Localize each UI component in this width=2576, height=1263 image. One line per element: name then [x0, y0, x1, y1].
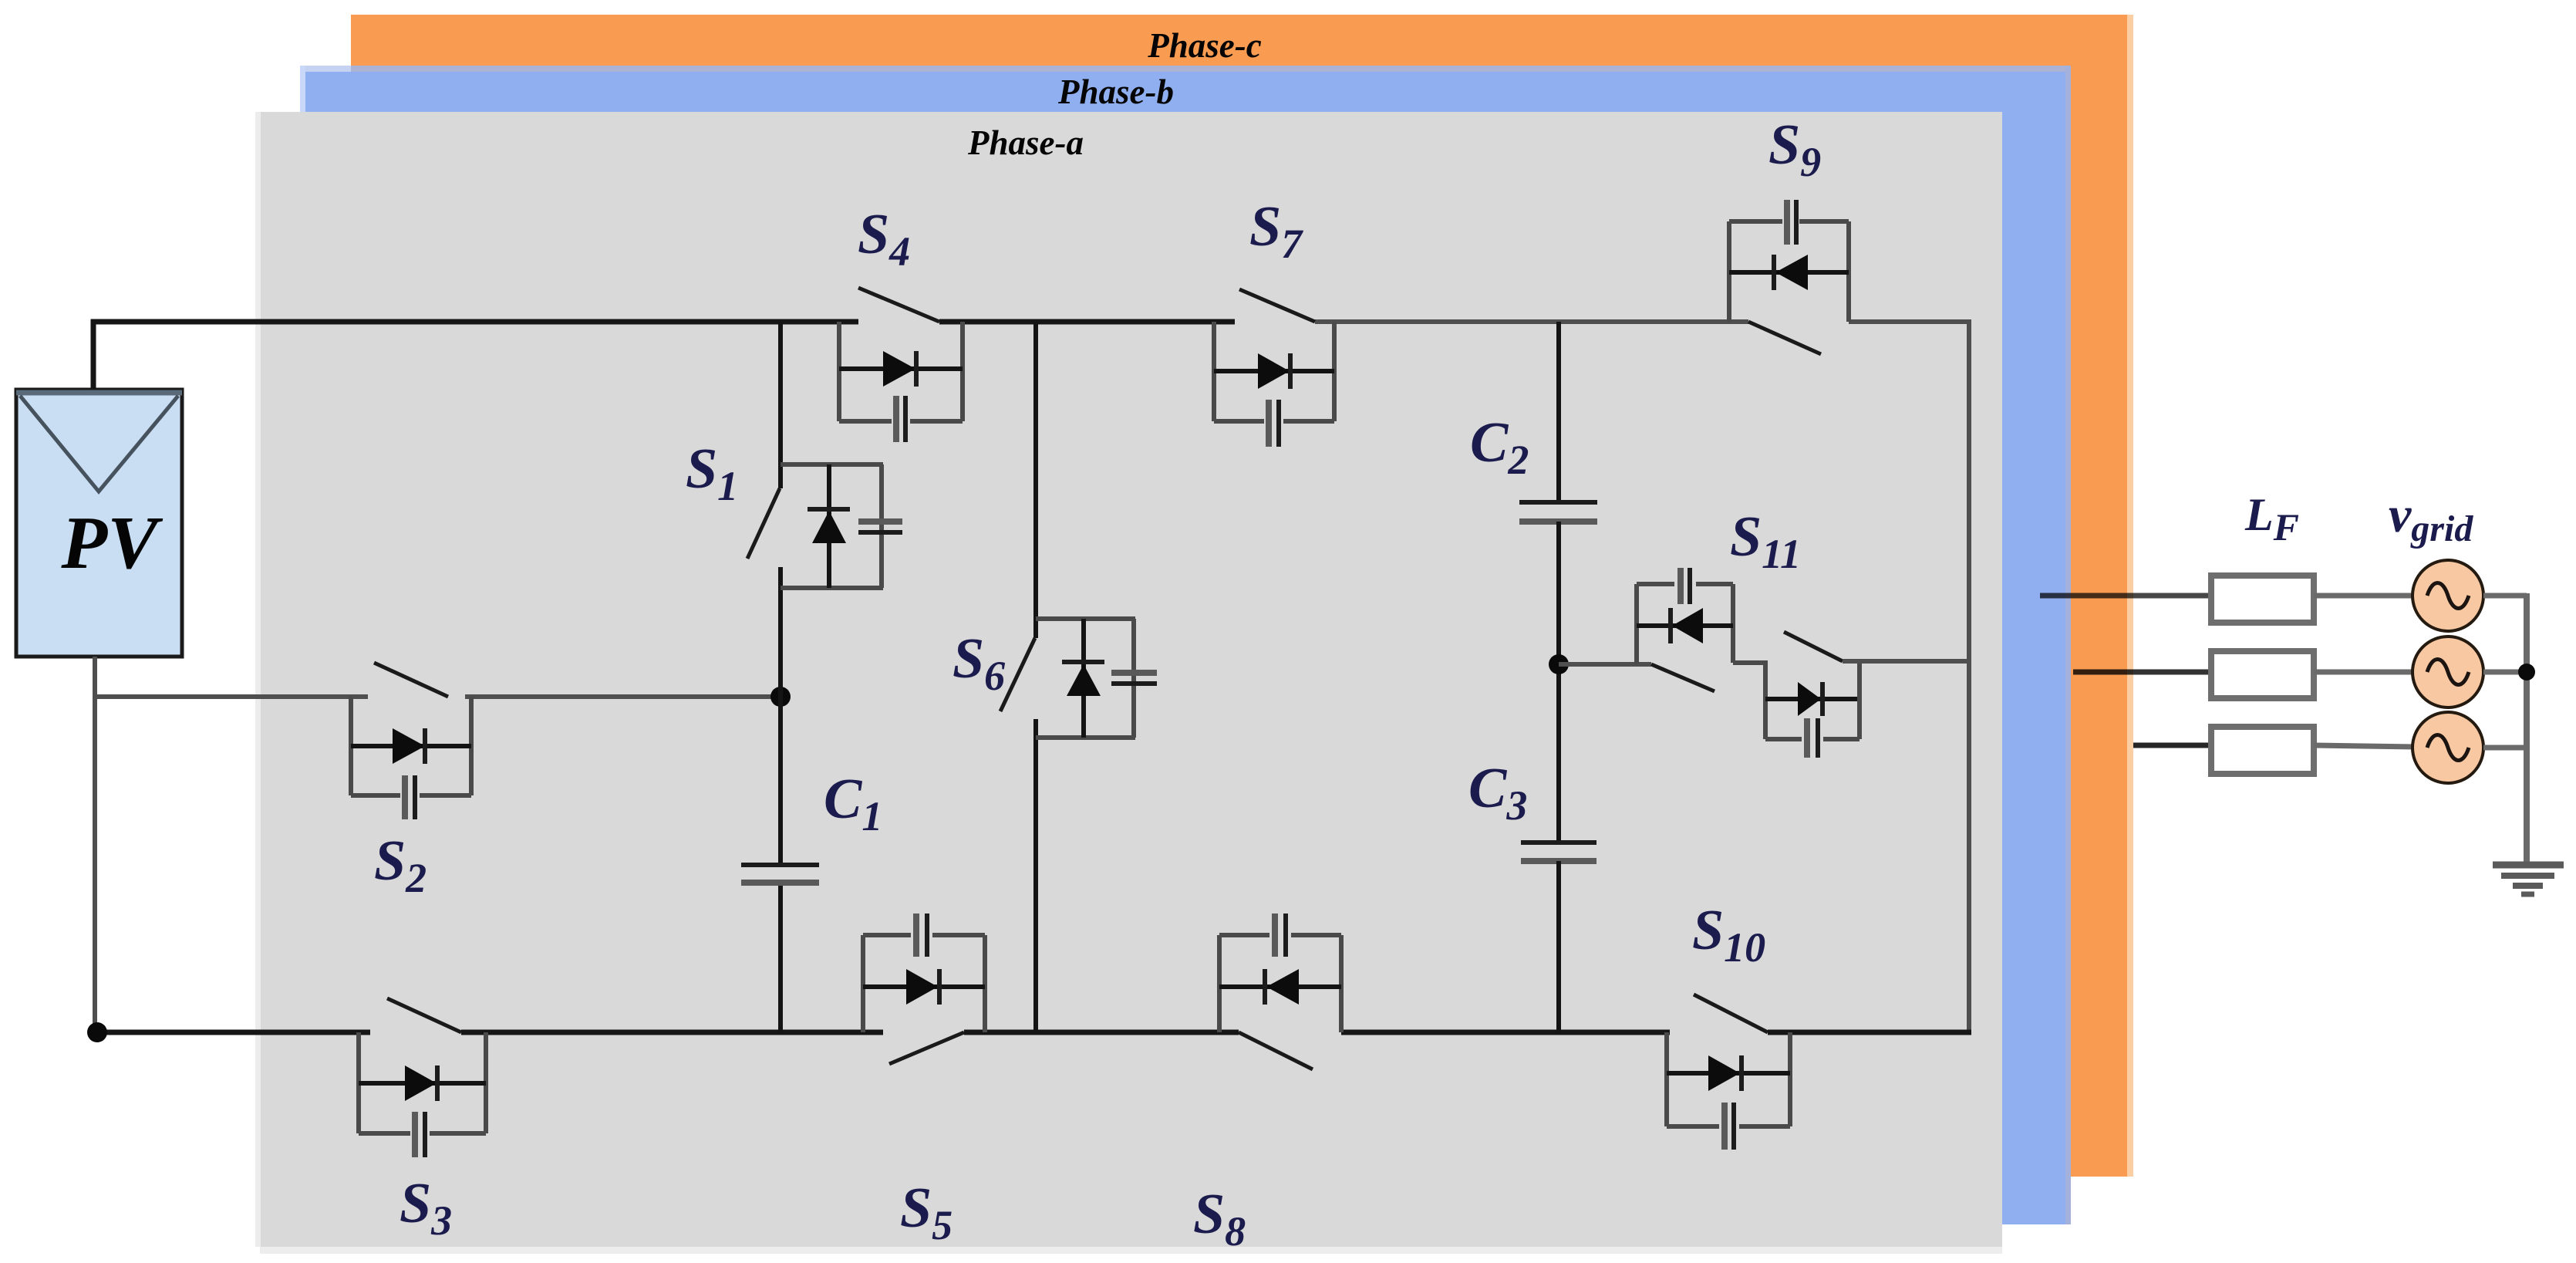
switch S9 snubber box: [1727, 221, 1731, 322]
switch S6 (vertical, mid leg): [1000, 322, 1157, 1032]
switch S2 body diode: [351, 744, 471, 748]
wire top rail: S7 to S9: [1315, 319, 1748, 324]
switch S7 snubber box: [1212, 322, 1216, 421]
ground: [2493, 865, 2564, 894]
wire phase-a output row: [2040, 593, 2211, 599]
switch S3 snubber capacitor: [412, 1112, 418, 1157]
switch S10 snubber box: [1664, 1032, 1669, 1126]
svg-text:PV: PV: [60, 501, 164, 585]
node bottom-left junction dot: [87, 1022, 107, 1042]
switch S2 snubber box: [349, 697, 353, 795]
wire bottom rail: S10 to right corner: [1768, 1030, 1971, 1035]
wire right vertical rail: [1967, 319, 1971, 1032]
phase-b sheet (blue): [300, 66, 2071, 1224]
S11 right blade: [1784, 632, 1843, 661]
wire bottom rail: node to S3: [97, 1030, 370, 1035]
switch S10 blade: [1694, 995, 1768, 1032]
switch S5 snubber box: [861, 935, 865, 1032]
S11 right snubber box: [1765, 737, 1802, 741]
wire vgrid3 to neutral rail: [2483, 745, 2527, 751]
switch S5: [863, 913, 985, 1064]
node neutral junction dot: [2518, 664, 2535, 680]
switch S2: [351, 663, 471, 819]
S11 left snubber box: [1634, 584, 1639, 664]
switch S10: [1667, 995, 1790, 1150]
S11 left body diode: [1637, 623, 1733, 628]
switch S4 snubber box: [837, 322, 841, 421]
svg-text:Phase-a: Phase-a: [967, 123, 1084, 162]
switch S10 body diode: [1667, 1071, 1790, 1076]
wire vgrid1 to neutral rail: [2483, 593, 2527, 599]
switch S8: [1219, 913, 1341, 1069]
capacitor C3: [1521, 664, 1597, 1032]
wire middle row: PV to S2: [93, 694, 368, 699]
S11 inter-stage step wire: [1733, 663, 1765, 739]
wire top rail: S9 to right corner: [1849, 319, 1967, 324]
wire node B to S11: [1559, 662, 1651, 667]
wire PV positive terminal to top rail: [93, 322, 96, 390]
S11 right snubber capacitor: [1804, 718, 1810, 758]
switch S10 snubber capacitor: [1721, 1103, 1728, 1150]
switch S8 snubber box: [1217, 935, 1222, 1032]
switch S2 snubber capacitor: [402, 775, 408, 819]
switch S9: [1729, 200, 1849, 354]
capacitor C1: [741, 865, 819, 883]
switch S9 blade: [1748, 322, 1821, 354]
wire top rail: S4 to S7: [939, 319, 1235, 325]
switch S3 blade: [387, 998, 461, 1032]
inductor LF phase-a: [2211, 576, 2314, 623]
switch S6 snubber box: [1036, 616, 1135, 621]
switch S5 body diode: [863, 984, 985, 989]
switch S6 lower wire: [1033, 719, 1038, 1032]
S11 right body diode: [1765, 697, 1860, 701]
wire neutral rail vertical: [2524, 593, 2530, 865]
svg-text:Phase-b: Phase-b: [1057, 73, 1174, 111]
switch S1 snubber box: [781, 462, 883, 467]
switch S9 snubber capacitor: [1784, 200, 1790, 245]
node B junction dot (C2/C3 midpoint): [1549, 654, 1569, 674]
wire phase-c output row: [2133, 743, 2211, 748]
switch S3 body diode: [359, 1081, 486, 1086]
source vgrid phase-c: [2412, 712, 2483, 783]
wire S11 to right rail: [1843, 659, 1969, 664]
inductor LF phase-c: [2211, 727, 2314, 774]
switch S7 blade: [1239, 289, 1315, 322]
switch S6 body diode: [1081, 619, 1086, 738]
svg-text:Phase-c: Phase-c: [1147, 26, 1261, 65]
switch S4 body diode: [839, 366, 963, 371]
switch S1 upper wire: [778, 322, 783, 488]
wire LF1 to vgrid1: [2314, 593, 2415, 599]
switch S7 snubber capacitor: [1266, 400, 1272, 447]
switch S1 body diode: [827, 464, 831, 588]
switch S2 blade: [374, 663, 448, 697]
switch S6 upper wire: [1033, 322, 1038, 638]
switch S4 blade: [858, 288, 939, 322]
source vgrid phase-b: [2412, 637, 2483, 707]
switch S3: [359, 998, 486, 1157]
wire phase-b output row: [2073, 670, 2211, 675]
switch S5 blade: [889, 1032, 964, 1064]
switch S1 blade: [747, 488, 780, 559]
switch S11 left half: [1637, 568, 1765, 739]
switch S8 snubber capacitor: [1272, 913, 1278, 957]
switch S1 lower wire: [778, 567, 783, 865]
S11 left blade: [1651, 664, 1715, 691]
switch S9 body diode: [1729, 270, 1849, 275]
switch S8 blade: [1239, 1032, 1313, 1069]
switch S4: [839, 288, 963, 442]
wire vgrid2 to neutral rail: [2483, 670, 2527, 675]
switch S1 (vertical, node A leg): [747, 322, 902, 1032]
switch S7: [1214, 289, 1334, 447]
switch S5 snubber capacitor: [913, 913, 919, 957]
wire LF2 to vgrid2: [2314, 670, 2415, 675]
switch S3 snubber box: [356, 1032, 361, 1133]
wire bottom rail: S3 to S5: [461, 1030, 883, 1035]
wire bottom rail: S5 to S8: [964, 1030, 1239, 1035]
S11 left snubber capacitor: [1677, 568, 1684, 604]
inductor LF phase-b: [2211, 651, 2314, 698]
switch S8 body diode: [1219, 984, 1341, 989]
wire bottom rail: S8 to S10: [1341, 1030, 1670, 1035]
switch S4 snubber capacitor: [893, 396, 899, 442]
wire top rail: PV to S4: [91, 319, 858, 325]
switch S11 right half: [1765, 632, 1860, 758]
capacitor C2: [1519, 322, 1597, 664]
wire LF3 to vgrid3: [2314, 745, 2415, 747]
switch S6 blade: [1000, 638, 1035, 711]
PV panel: [16, 390, 182, 657]
phase-c sheet (orange): [351, 15, 2133, 1177]
source vgrid phase-a: [2412, 560, 2483, 631]
switch S7 body diode: [1214, 369, 1334, 373]
wire PV negative terminal down to bottom rail: [93, 657, 97, 1032]
switch S1 snubber capacitor: [858, 518, 902, 525]
svg-text:vgrid: vgrid: [2389, 487, 2473, 549]
node A junction dot: [770, 687, 791, 707]
phase-a sheet (gray): [255, 112, 2002, 1254]
wire middle row: S2 to node A: [465, 694, 781, 699]
svg-text:LF: LF: [2244, 489, 2299, 549]
switch S6 snubber capacitor: [1111, 670, 1157, 676]
